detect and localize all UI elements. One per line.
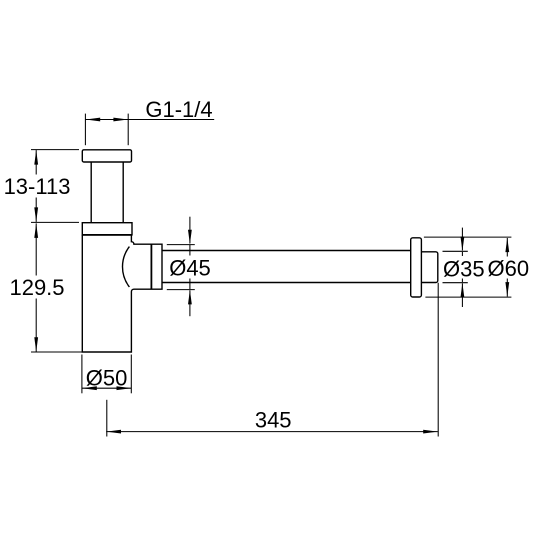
svg-text:129.5: 129.5 — [9, 275, 64, 300]
svg-text:G1-1/4: G1-1/4 — [145, 97, 212, 122]
svg-text:13-113: 13-113 — [4, 174, 71, 199]
svg-text:Ø60: Ø60 — [488, 256, 530, 281]
svg-text:Ø45: Ø45 — [169, 256, 211, 281]
svg-text:Ø50: Ø50 — [86, 366, 128, 391]
svg-text:345: 345 — [255, 407, 292, 432]
svg-text:Ø35: Ø35 — [443, 256, 485, 281]
